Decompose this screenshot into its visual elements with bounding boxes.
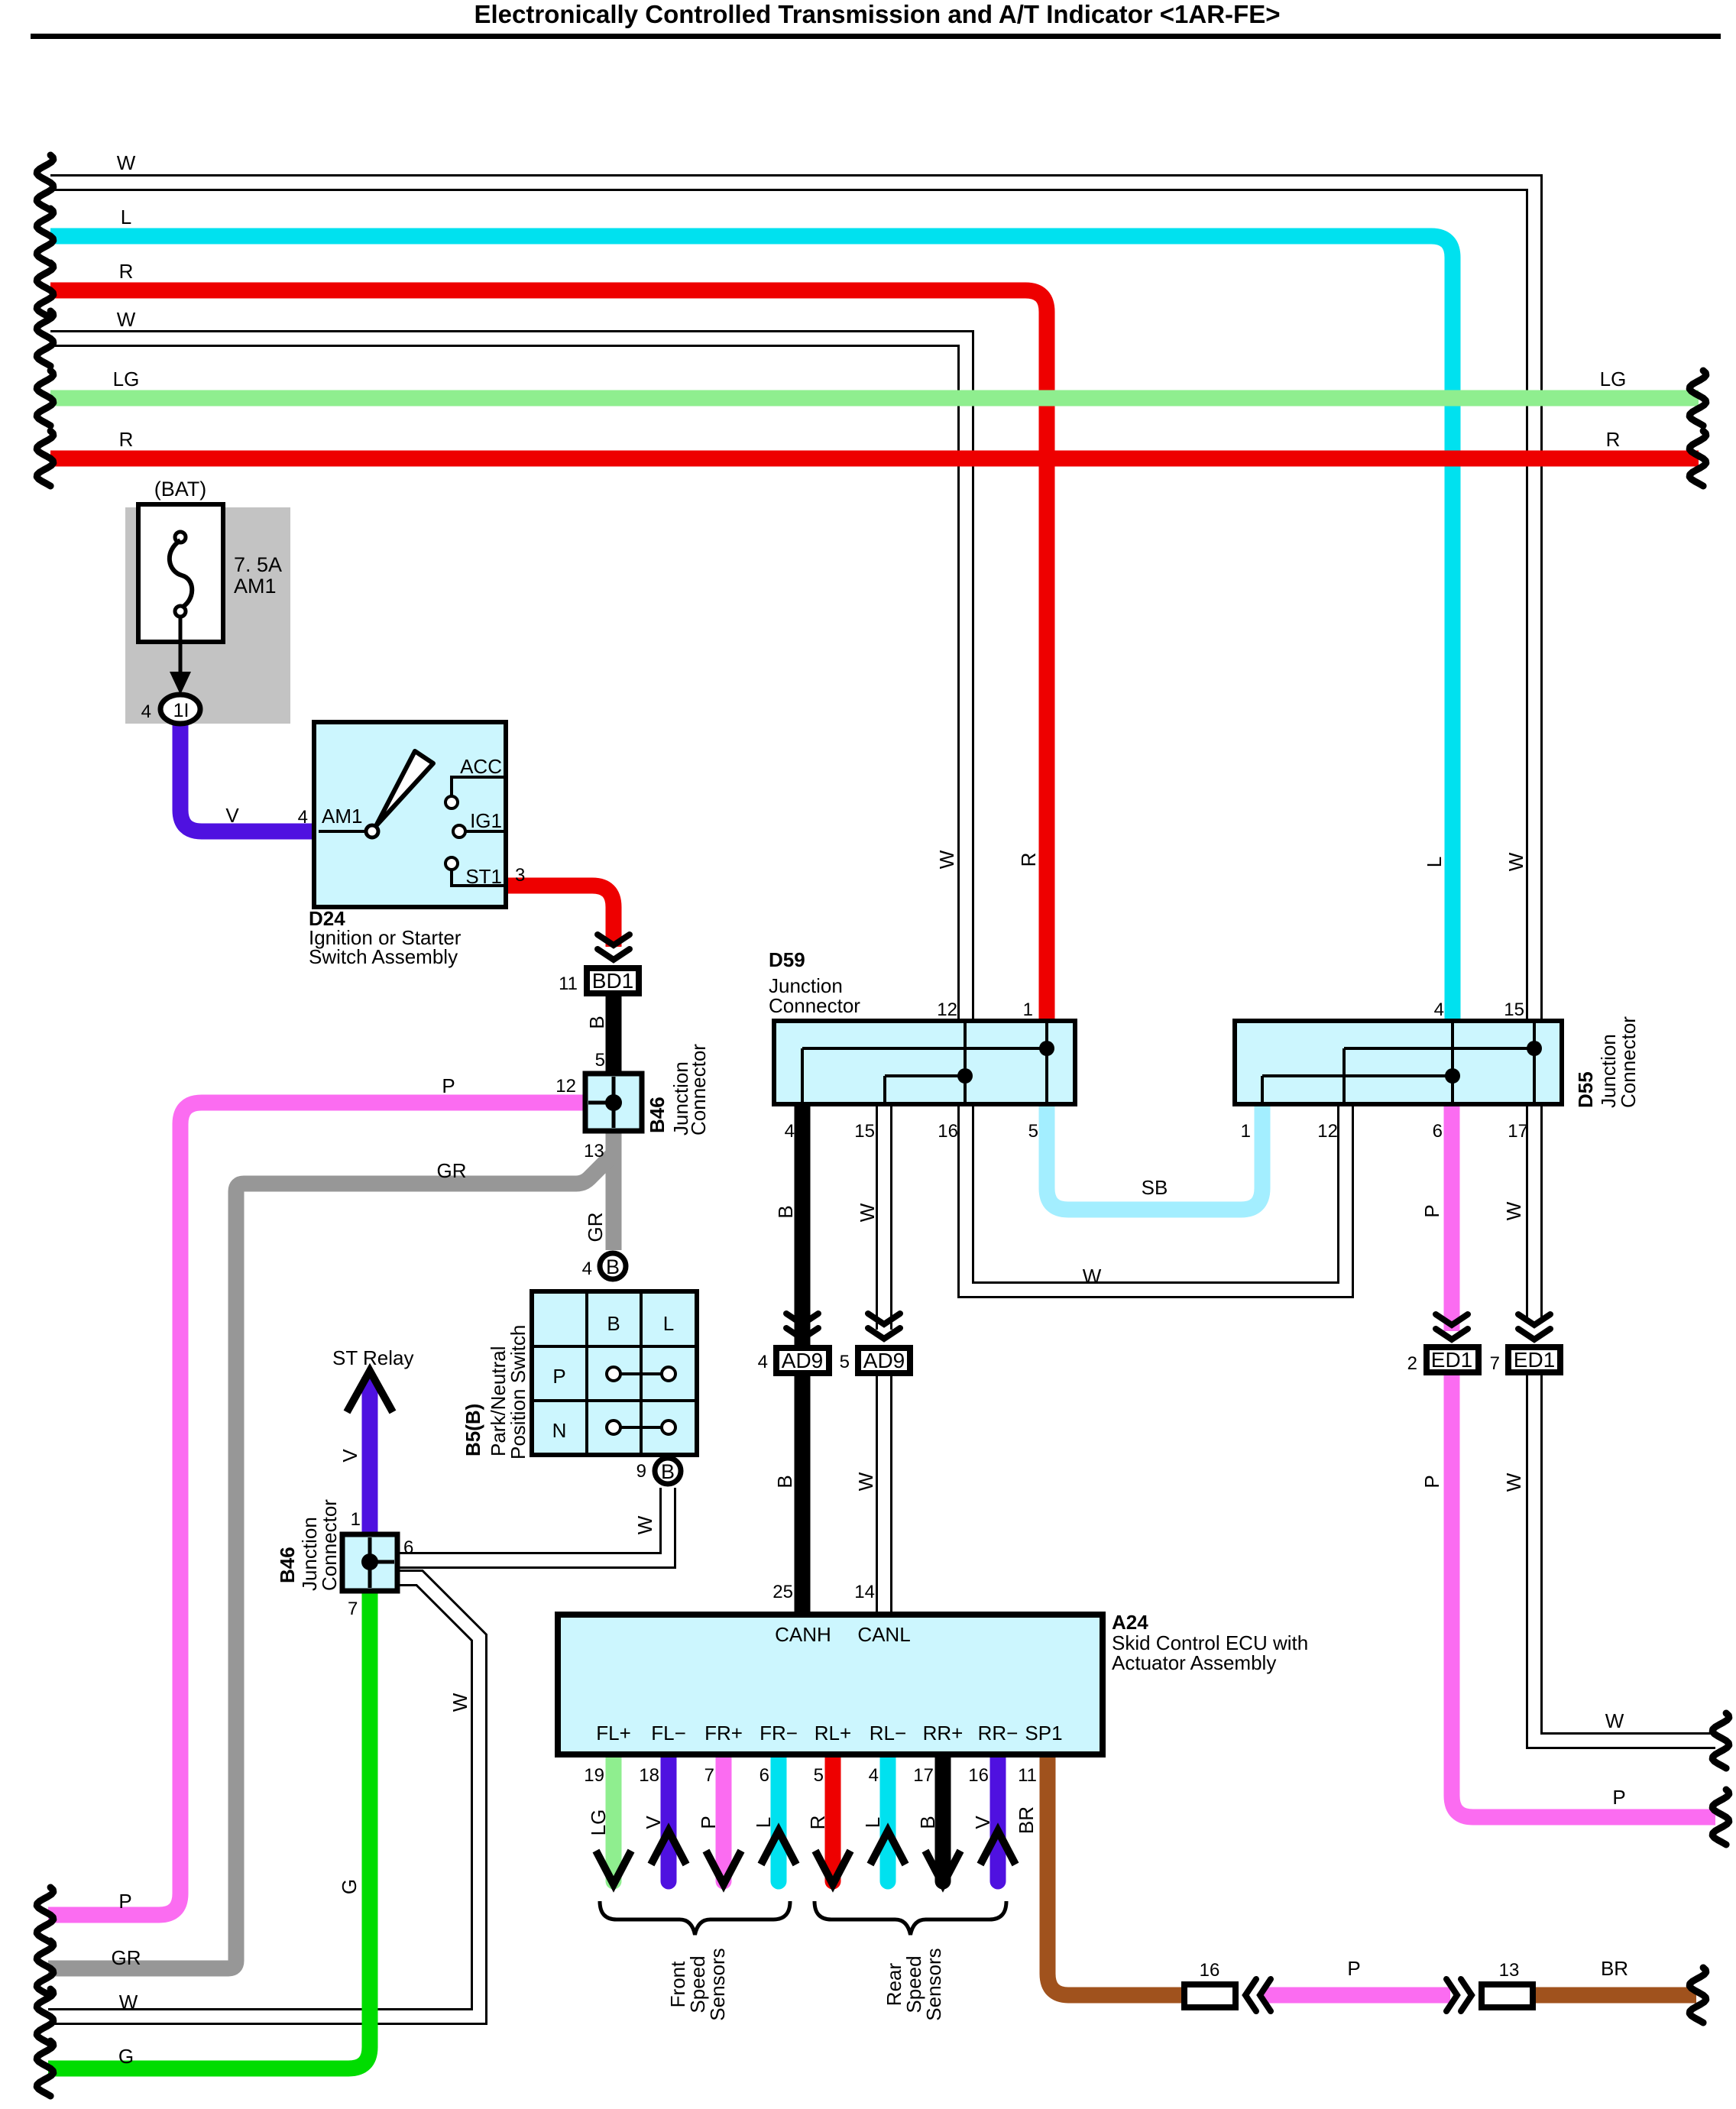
svg-text:SB: SB bbox=[1142, 1176, 1168, 1199]
svg-text:L: L bbox=[1423, 857, 1446, 867]
svg-text:Sensors: Sensors bbox=[922, 1948, 945, 2020]
fuse block background bbox=[125, 507, 290, 724]
connector AD9 first bbox=[776, 1348, 829, 1373]
svg-text:W: W bbox=[1502, 1472, 1525, 1492]
svg-text:R: R bbox=[1017, 853, 1040, 867]
wire end squiggle bottom left y=2506 bbox=[37, 1887, 53, 1942]
wire B black from BD1 to B46 pin 5 bbox=[606, 996, 622, 1074]
junction connector B46 lower box bbox=[342, 1534, 397, 1591]
svg-text:P: P bbox=[442, 1074, 455, 1097]
wire end squiggle left y=239 bbox=[37, 155, 53, 210]
svg-text:4: 4 bbox=[298, 807, 308, 828]
svg-text:6: 6 bbox=[1433, 1121, 1443, 1142]
connector ED1 second bbox=[1508, 1347, 1560, 1372]
svg-text:P: P bbox=[1420, 1475, 1443, 1488]
wire end squiggle right W bbox=[1712, 1713, 1729, 1768]
svg-text:L: L bbox=[752, 1817, 775, 1828]
svg-text:P: P bbox=[1420, 1204, 1443, 1217]
svg-text:7: 7 bbox=[1490, 1353, 1500, 1374]
junction connector D59 box bbox=[774, 1021, 1075, 1104]
svg-text:5: 5 bbox=[840, 1352, 850, 1372]
arrow up on L sensor lead bbox=[870, 1831, 905, 1864]
wire P pink from ED1 to bottom right bbox=[1452, 1375, 1715, 1817]
wire L cyan to D55 pin 4 bbox=[50, 236, 1453, 1021]
svg-text:12: 12 bbox=[937, 999, 957, 1020]
svg-text:Electronically Controlled Tran: Electronically Controlled Transmission a… bbox=[474, 0, 1280, 28]
svg-text:L: L bbox=[663, 1312, 674, 1335]
svg-text:16: 16 bbox=[938, 1121, 958, 1142]
svg-text:LG: LG bbox=[587, 1809, 610, 1836]
wire L sensor lead at x=1162 bbox=[880, 1754, 896, 1881]
svg-text:RL+: RL+ bbox=[815, 1722, 851, 1745]
wire W from ED1 to bottom right bbox=[1534, 1375, 1715, 1741]
svg-text:Connector: Connector bbox=[769, 994, 860, 1017]
arrow down on P sensor lead bbox=[706, 1851, 741, 1884]
svg-text:BR: BR bbox=[1015, 1806, 1038, 1834]
wire end squiggle left y=521 bbox=[37, 371, 53, 426]
wire R sensor lead at x=1090 bbox=[825, 1754, 841, 1881]
svg-text:AD9: AD9 bbox=[863, 1349, 905, 1372]
svg-text:B5(B): B5(B) bbox=[462, 1404, 484, 1456]
arrow down on LG sensor lead bbox=[596, 1851, 631, 1884]
svg-text:12: 12 bbox=[555, 1076, 576, 1097]
svg-text:W: W bbox=[1504, 852, 1527, 871]
wire L sensor lead at x=1019 bbox=[771, 1754, 787, 1881]
D24 ST1 contact bbox=[445, 857, 458, 870]
junction connector D55 box bbox=[1235, 1021, 1562, 1104]
svg-text:5: 5 bbox=[1028, 1121, 1038, 1142]
svg-text:CANH: CANH bbox=[775, 1623, 831, 1646]
svg-text:14: 14 bbox=[854, 1582, 875, 1602]
wire end squiggle right P bbox=[1712, 1790, 1729, 1845]
svg-text:P: P bbox=[697, 1816, 720, 1829]
svg-text:CANL: CANL bbox=[857, 1623, 910, 1646]
arrow into AD9 pin 4 bbox=[786, 1328, 818, 1339]
svg-text:B46: B46 bbox=[646, 1097, 669, 1133]
svg-text:18: 18 bbox=[639, 1765, 659, 1786]
svg-text:5: 5 bbox=[595, 1050, 605, 1071]
svg-text:RR−: RR− bbox=[978, 1722, 1019, 1745]
svg-text:ST Relay: ST Relay bbox=[332, 1346, 413, 1369]
wire P sensor lead at x=947 bbox=[716, 1754, 732, 1881]
svg-text:FL−: FL− bbox=[651, 1722, 686, 1745]
svg-text:A24: A24 bbox=[1112, 1611, 1148, 1634]
svg-text:Sensors: Sensors bbox=[706, 1948, 729, 2020]
connector B circle pin 9 bbox=[655, 1458, 681, 1484]
svg-text:RR+: RR+ bbox=[923, 1722, 964, 1745]
svg-text:FR−: FR− bbox=[759, 1722, 798, 1745]
wire P pink from B46 pin 12 to bottom left bbox=[48, 1103, 585, 1915]
wire W from D55 pin 17 to ED1 bbox=[1526, 1104, 1543, 1319]
wire end squiggle left y=443 bbox=[37, 311, 53, 366]
svg-text:16: 16 bbox=[968, 1765, 989, 1786]
svg-text:4: 4 bbox=[582, 1259, 592, 1279]
connector AD4 bbox=[1184, 1984, 1236, 2007]
svg-text:L: L bbox=[121, 206, 131, 228]
svg-text:9: 9 bbox=[636, 1461, 646, 1482]
svg-text:Actuator Assembly: Actuator Assembly bbox=[1112, 1651, 1276, 1674]
svg-text:D59: D59 bbox=[769, 948, 805, 971]
svg-text:R: R bbox=[119, 428, 134, 451]
svg-text:V: V bbox=[225, 804, 239, 827]
svg-text:4: 4 bbox=[785, 1121, 795, 1142]
svg-text:W: W bbox=[119, 1991, 138, 2013]
svg-text:ST1: ST1 bbox=[465, 865, 502, 888]
svg-text:D55: D55 bbox=[1574, 1071, 1597, 1108]
rear speed sensors brace bbox=[815, 1901, 1006, 1935]
D24 AM1 contact line bbox=[319, 830, 367, 833]
svg-text:W: W bbox=[1502, 1201, 1525, 1220]
wire BR brown from ED5 to right edge bbox=[1536, 1988, 1696, 2004]
wire end squiggle right y=600 bbox=[1689, 431, 1706, 486]
connector B circle pin 4 bbox=[600, 1253, 626, 1279]
wire W from B5(B) pin 9 to B46 pin 6 bbox=[399, 1488, 668, 1560]
wire V sensor lead at x=875 bbox=[661, 1754, 677, 1881]
connector BD1 bbox=[587, 968, 639, 993]
svg-text:15: 15 bbox=[1504, 999, 1524, 1020]
wire GR gray from B46 pin 13 to B5(B) pin 4 bbox=[606, 1131, 622, 1250]
svg-text:4: 4 bbox=[141, 701, 151, 722]
fuse AM1 7.5A bbox=[138, 504, 223, 642]
svg-text:N: N bbox=[552, 1419, 567, 1442]
svg-text:AM1: AM1 bbox=[234, 575, 277, 598]
wire G green from B46 pin 7 to bottom left bbox=[48, 1591, 370, 2069]
svg-text:W: W bbox=[854, 1472, 877, 1491]
wire GR gray branch to bottom left bbox=[48, 1154, 614, 1968]
wire W from B46 to bottom left bbox=[48, 1578, 479, 2017]
svg-text:17: 17 bbox=[913, 1765, 934, 1786]
svg-text:Position Switch: Position Switch bbox=[507, 1325, 530, 1459]
svg-text:Connector: Connector bbox=[1617, 1016, 1640, 1108]
wire W from AD9 to A24 pin 14 CANL bbox=[876, 1375, 892, 1615]
svg-text:IG1: IG1 bbox=[470, 809, 502, 832]
svg-text:G: G bbox=[118, 2045, 134, 2068]
svg-text:25: 25 bbox=[772, 1582, 793, 1602]
svg-text:LG: LG bbox=[1600, 368, 1627, 390]
wire V violet from fuse 1I to D24 pin 4 bbox=[180, 724, 314, 831]
svg-text:ED1: ED1 bbox=[1431, 1348, 1472, 1372]
wire R red to D59 pin 1 bbox=[50, 290, 1047, 1021]
connector AD9 second bbox=[858, 1348, 910, 1373]
P row contacts bbox=[620, 1372, 662, 1375]
wire BR brown from A24 SP1 to AD4 bbox=[1048, 1754, 1181, 1995]
wire end squiggle right BR bbox=[1689, 1968, 1706, 2023]
arrow down on R sensor lead bbox=[815, 1851, 850, 1884]
svg-text:W: W bbox=[1083, 1265, 1102, 1288]
svg-text:AD9: AD9 bbox=[782, 1349, 823, 1372]
svg-text:6: 6 bbox=[403, 1537, 413, 1558]
wire R red from D24 ST1 pin 3 to BD1 bbox=[506, 886, 614, 947]
svg-text:R: R bbox=[806, 1816, 829, 1830]
svg-text:W: W bbox=[449, 1693, 471, 1712]
arrow into ED1 pin 2 bbox=[1436, 1329, 1468, 1340]
park/neutral position switch B5(B) bbox=[532, 1291, 697, 1455]
svg-text:RL−: RL− bbox=[870, 1722, 906, 1745]
wire end squiggle bottom left y=2707 bbox=[37, 2041, 53, 2096]
svg-text:P: P bbox=[1347, 1957, 1360, 1980]
svg-text:B: B bbox=[916, 1816, 939, 1829]
svg-text:P: P bbox=[1612, 1786, 1625, 1809]
front speed sensors brace bbox=[600, 1901, 790, 1935]
svg-text:SP1: SP1 bbox=[1025, 1722, 1062, 1745]
svg-text:V: V bbox=[642, 1816, 665, 1829]
svg-text:6: 6 bbox=[759, 1765, 769, 1786]
svg-text:G: G bbox=[338, 1879, 361, 1894]
arrow up on V sensor lead bbox=[980, 1831, 1015, 1864]
arrow into AD4 bbox=[1245, 1979, 1256, 2011]
svg-text:2: 2 bbox=[1407, 1353, 1417, 1374]
svg-text:4: 4 bbox=[1434, 999, 1444, 1020]
wire end squiggle bottom left y=2639 bbox=[37, 1989, 53, 2044]
wire W to D55 pin 15 (top) bbox=[50, 183, 1534, 1021]
svg-text:13: 13 bbox=[1499, 1960, 1520, 1981]
wire P pink from D55 pin 6 to ED1 bbox=[1444, 1104, 1460, 1331]
arrow up on L sensor lead bbox=[761, 1831, 796, 1864]
svg-text:1: 1 bbox=[1241, 1121, 1251, 1142]
svg-text:V: V bbox=[338, 1449, 361, 1463]
svg-text:BR: BR bbox=[1601, 1957, 1628, 1980]
svg-text:(BAT): (BAT) bbox=[154, 478, 207, 501]
svg-text:16: 16 bbox=[1200, 1960, 1220, 1981]
svg-text:B: B bbox=[585, 1016, 608, 1029]
arrow into AD9 pin 5 bbox=[868, 1328, 900, 1339]
svg-text:W: W bbox=[633, 1515, 656, 1534]
svg-text:V: V bbox=[971, 1816, 994, 1829]
svg-text:15: 15 bbox=[854, 1121, 875, 1142]
D24 IG1 contact bbox=[453, 825, 465, 837]
arrow to ST relay bbox=[347, 1371, 393, 1412]
svg-text:B46: B46 bbox=[276, 1547, 299, 1583]
svg-text:B: B bbox=[774, 1205, 797, 1218]
svg-text:5: 5 bbox=[814, 1765, 824, 1786]
arrow into ED5 bbox=[1461, 1979, 1472, 2011]
D24 switch lever bbox=[376, 751, 433, 826]
svg-text:P: P bbox=[118, 1890, 131, 1913]
D24 ACC contact bbox=[445, 796, 458, 808]
wire W from D59 pin 15 to AD9 bbox=[876, 1104, 892, 1330]
svg-text:W: W bbox=[117, 308, 136, 331]
svg-text:11: 11 bbox=[559, 974, 578, 994]
svg-text:7: 7 bbox=[348, 1599, 358, 1619]
svg-text:ED1: ED1 bbox=[1514, 1348, 1555, 1372]
wire end squiggle right y=521 bbox=[1689, 371, 1706, 426]
wire W to D59 pin 12 bbox=[50, 339, 966, 1021]
junction connector B46 upper box bbox=[585, 1074, 642, 1131]
wire B sensor lead at x=1234 bbox=[935, 1754, 951, 1881]
arrow up on V sensor lead bbox=[651, 1831, 686, 1864]
svg-text:GR: GR bbox=[437, 1159, 467, 1182]
svg-text:Switch Assembly: Switch Assembly bbox=[309, 945, 458, 968]
svg-text:GR: GR bbox=[112, 1946, 141, 1969]
svg-text:19: 19 bbox=[584, 1765, 604, 1786]
svg-text:FR+: FR+ bbox=[704, 1722, 743, 1745]
svg-text:B: B bbox=[773, 1475, 796, 1488]
svg-text:B: B bbox=[661, 1460, 675, 1483]
wire LG light green across page bbox=[50, 390, 1699, 407]
svg-text:1I: 1I bbox=[173, 700, 189, 721]
svg-text:R: R bbox=[119, 260, 134, 283]
svg-text:Connector: Connector bbox=[318, 1499, 341, 1591]
svg-text:P: P bbox=[552, 1365, 565, 1388]
connector 1I oval bbox=[160, 695, 200, 724]
svg-text:B: B bbox=[607, 1312, 620, 1335]
svg-text:3: 3 bbox=[515, 865, 525, 886]
N row contacts bbox=[620, 1426, 662, 1429]
svg-text:12: 12 bbox=[1317, 1121, 1338, 1142]
svg-text:13: 13 bbox=[584, 1141, 604, 1161]
svg-text:1: 1 bbox=[351, 1509, 361, 1530]
skid control ECU A24 box bbox=[558, 1615, 1103, 1754]
wire LG sensor lead at x=803 bbox=[606, 1754, 622, 1881]
wire end squiggle left y=380 bbox=[37, 263, 53, 318]
wire R red across page bbox=[50, 451, 1699, 467]
svg-text:B: B bbox=[606, 1255, 620, 1278]
svg-text:W: W bbox=[935, 850, 958, 869]
svg-text:W: W bbox=[856, 1203, 879, 1222]
title rule bbox=[31, 34, 1721, 39]
svg-text:Connector: Connector bbox=[687, 1044, 710, 1135]
svg-text:W: W bbox=[117, 151, 136, 174]
wire end squiggle left y=600 bbox=[37, 431, 53, 486]
svg-text:11: 11 bbox=[1018, 1765, 1037, 1786]
svg-text:GR: GR bbox=[584, 1213, 607, 1242]
wire end squiggle left y=309 bbox=[37, 209, 53, 264]
svg-text:FL+: FL+ bbox=[596, 1722, 631, 1745]
svg-text:W: W bbox=[1605, 1709, 1624, 1732]
wire P pink between AD4 and ED5 bbox=[1262, 1988, 1450, 2004]
arrow from fuse to connector 1I bbox=[179, 617, 183, 673]
svg-text:7: 7 bbox=[704, 1765, 714, 1786]
wire SB from D59 pin 5 to D55 pin 1 bbox=[1047, 1104, 1262, 1210]
svg-text:AM1: AM1 bbox=[322, 805, 362, 828]
wire W from D59 pin 16 to D55 pin 12 bbox=[966, 1104, 1346, 1290]
connector ED1 first bbox=[1427, 1347, 1479, 1372]
wire V sensor lead at x=1306 bbox=[990, 1754, 1006, 1881]
svg-text:LG: LG bbox=[113, 368, 140, 390]
svg-text:R: R bbox=[1606, 428, 1621, 451]
svg-text:4: 4 bbox=[758, 1352, 768, 1372]
connector ED5 bbox=[1482, 1984, 1533, 2007]
svg-text:ACC: ACC bbox=[460, 755, 502, 778]
wire end squiggle bottom left y=2576 bbox=[37, 1941, 53, 1996]
arrow down on B sensor lead bbox=[925, 1851, 960, 1884]
ignition switch D24 box bbox=[314, 722, 506, 907]
wire B black from D59 pin 4 to A24 pin 25 CANH bbox=[795, 1104, 811, 1615]
svg-text:1: 1 bbox=[1023, 999, 1033, 1020]
svg-text:L: L bbox=[861, 1817, 884, 1828]
wire V violet from ST relay to B46 pin 1 bbox=[362, 1377, 378, 1534]
svg-text:BD1: BD1 bbox=[592, 969, 633, 993]
svg-text:7. 5A: 7. 5A bbox=[234, 553, 282, 576]
svg-text:17: 17 bbox=[1508, 1121, 1528, 1142]
arrow into BD1 bbox=[598, 949, 630, 960]
arrow into ED1 pin 7 bbox=[1518, 1329, 1550, 1340]
svg-text:4: 4 bbox=[869, 1765, 879, 1786]
